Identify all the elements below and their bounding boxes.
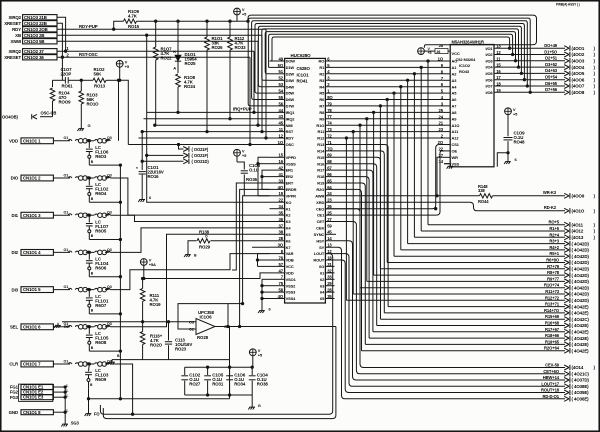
- capacitor filter FL1O3 R6O9: [85, 364, 109, 388]
- svg-text:CEK: CEK: [316, 226, 324, 231]
- svg-text:LOUT+17: LOUT+17: [541, 381, 559, 386]
- arrow OSC-CB: [2, 111, 56, 120]
- junction RC node: [80, 79, 82, 81]
- wire opamp gnd bus: [108, 327, 229, 365]
- capacitor C1O4 RO38: [249, 367, 269, 395]
- svg-text:ROO9: ROO9: [59, 100, 72, 105]
- SRAM pin 17 I/O6: [485, 75, 501, 82]
- svg-text:(4OO5: (4OO5: [572, 71, 585, 76]
- svg-text:(4OO2: (4OO2: [572, 52, 585, 57]
- svg-text:R12: R12: [317, 136, 325, 141]
- wire R7 address row: [325, 105, 444, 269]
- inductor filter row CN1O1 5: [53, 285, 111, 292]
- wire DI2 to K4: [111, 228, 270, 253]
- svg-text:CE1: CE1: [317, 213, 325, 218]
- svg-text:RO28: RO28: [197, 335, 209, 340]
- wire R0 address row: [325, 60, 444, 225]
- svg-text:( 4O36E): ( 4O36E): [572, 397, 590, 402]
- svg-text:( 4O42E): ( 4O42E): [572, 323, 590, 328]
- CPU pin 66 R18: [317, 172, 332, 179]
- svg-text:4.7K: 4.7K: [128, 14, 138, 19]
- capacitor filter FL1O5 R6O8: [86, 327, 109, 351]
- ground R138: [184, 252, 197, 257]
- svg-text:I/O8: I/O8: [485, 90, 493, 95]
- svg-text:R17+67: R17+67: [545, 327, 560, 332]
- wire XRESET to net2: [57, 23, 62, 57]
- wire opamp input row: [62, 321, 196, 323]
- diode D101 1S954 R025: [173, 21, 197, 73]
- svg-text:16: 16: [279, 159, 284, 164]
- svg-text:CET+6O: CET+6O: [543, 369, 560, 374]
- wire R15 row to fan: [325, 157, 380, 319]
- svg-text:53: 53: [279, 82, 284, 87]
- wire IRQ2 row: [144, 118, 270, 120]
- svg-text:CN1O3 2B: CN1O3 2B: [24, 33, 44, 38]
- wire D5W data bus: [255, 24, 526, 94]
- svg-text:VAR: VAR: [286, 251, 294, 256]
- svg-text:(4O11: (4O11: [572, 222, 584, 227]
- capacitor C1O5 RO31: [204, 367, 224, 395]
- svg-text:( 4O42D): ( 4O42D): [572, 254, 590, 259]
- svg-text:VCC: VCC: [286, 264, 294, 269]
- svg-text:RO29: RO29: [199, 244, 211, 249]
- connector CN1O3 22B: [4, 21, 57, 27]
- wire data row D3+52: [494, 62, 596, 70]
- wire +5 routing outer: [248, 15, 537, 48]
- CPU pin 35 65: [320, 294, 332, 301]
- svg-text:RDY-PUP: RDY-PUP: [79, 24, 98, 29]
- svg-text:CN1O1 8: CN1O1 8: [23, 410, 41, 415]
- wire R16 row to fan: [325, 164, 376, 326]
- svg-text:R8+78: R8+78: [547, 270, 560, 275]
- CPU pin 55 D6W: [270, 95, 295, 102]
- svg-text:CS1: CS1: [452, 142, 460, 147]
- CPU pin 58 VSS3: [270, 288, 297, 295]
- CPU pin 59 CEK: [316, 223, 332, 230]
- CPU pin 69 R15: [317, 153, 332, 160]
- wire data row DO+49: [494, 43, 596, 51]
- svg-text:R6O9: R6O9: [95, 377, 107, 382]
- svg-text:( 4O42D): ( 4O42D): [572, 241, 590, 246]
- connector CN1O2 37: [8, 49, 57, 55]
- CPU pin 27 CET: [317, 217, 333, 224]
- svg-text:75: 75: [279, 281, 284, 286]
- svg-text:+5A: +5A: [149, 262, 156, 267]
- SRAM pin 13 I/O1: [485, 44, 501, 51]
- CPU pin 13 SY: [319, 243, 332, 250]
- CPU pin 14 HSY: [316, 236, 332, 243]
- svg-text:R4+2: R4+2: [549, 245, 559, 250]
- svg-text:35: 35: [279, 211, 284, 216]
- wire R20 row to fan: [325, 189, 361, 350]
- wire RD-D-O1 to arrow: [325, 247, 589, 401]
- CPU pin 33 ERT: [270, 178, 294, 185]
- svg-text:ER1: ER1: [286, 168, 294, 173]
- SRAM pin 3 A7: [441, 101, 457, 108]
- connector CN101 8 GND: [9, 410, 54, 415]
- svg-text:L: L: [67, 383, 69, 387]
- wire R5 address row: [325, 92, 444, 256]
- wire fan row R11+73: [353, 289, 589, 297]
- svg-text:4O: 4O: [278, 185, 284, 190]
- svg-text:VDB: VDB: [286, 258, 294, 263]
- svg-text:RO1O: RO1O: [87, 101, 100, 106]
- wire CPU VAR VDB VCC bus: [256, 254, 269, 267]
- CPU pin 28 K6: [270, 236, 292, 243]
- svg-text:37: 37: [279, 223, 284, 228]
- wire filter FL1O5 to bus: [89, 350, 121, 352]
- svg-text:R15: R15: [317, 155, 325, 160]
- connector group FG outline: [19, 384, 53, 401]
- CPU pin 44 IRQ1: [270, 108, 296, 115]
- svg-text:C628O: C628O: [297, 66, 311, 71]
- CPU pin 74 R1O: [316, 121, 332, 128]
- CPU box HUC6280 IC101: [285, 53, 326, 303]
- svg-text:R19: R19: [317, 181, 325, 186]
- inductor filter row CN1O1 3: [53, 211, 111, 218]
- CPU pin 64 R2O: [316, 185, 332, 192]
- capacitor filter FL1O7 R6O5: [86, 215, 109, 239]
- CPU pin 16 VSSS: [270, 159, 297, 166]
- capacitor C1O6 RO34: [226, 367, 246, 395]
- arrow (0021D) c: [141, 159, 209, 165]
- wire CLR bottom route: [111, 364, 134, 415]
- capacitor C107 220P R061: [53, 57, 82, 88]
- svg-text:AWR: AWR: [315, 193, 324, 198]
- wire filter FL1O1 to bus: [89, 313, 121, 315]
- CPU pin 51 D2W: [270, 69, 295, 76]
- svg-text:36: 36: [279, 217, 284, 222]
- power +5 mid-left: [116, 60, 130, 82]
- svg-text:D6W: D6W: [286, 97, 295, 102]
- wire net1 CN102-37: [57, 46, 254, 112]
- SRAM pin 22 OE: [439, 146, 458, 153]
- svg-text:R6O3: R6O3: [95, 154, 107, 159]
- wire D0W data bus: [270, 37, 511, 61]
- SRAM pin 23 A11: [439, 127, 460, 134]
- wire DI3 route: [111, 254, 270, 290]
- capacitor C1O2 RO27: [181, 367, 201, 395]
- wire SYNC stub: [325, 233, 336, 235]
- SRAM pin 15 I/O4: [485, 63, 501, 70]
- wire data row D1+5O: [494, 49, 596, 57]
- svg-text:RD-D-O1: RD-D-O1: [542, 394, 559, 399]
- svg-text:D4W: D4W: [286, 84, 295, 89]
- svg-text:RO2O: RO2O: [150, 342, 163, 347]
- connector CN1O1 3: [12, 212, 54, 218]
- svg-text:IRQ+PUP: IRQ+PUP: [233, 107, 252, 112]
- ground CPU: [258, 306, 271, 313]
- svg-text:( 4O42D): ( 4O42D): [572, 285, 590, 290]
- svg-text:338: 338: [478, 188, 485, 193]
- svg-text:14: 14: [439, 159, 444, 164]
- svg-text:CN1O1 5: CN1O1 5: [23, 287, 41, 292]
- ground opamp input left: [54, 323, 68, 329]
- svg-text:O3: O3: [107, 248, 112, 252]
- CPU pin 5O D1W: [270, 63, 295, 70]
- svg-text:ERT: ERT: [286, 181, 294, 186]
- wire caps top bus: [185, 366, 254, 368]
- svg-text:*: *: [136, 166, 138, 171]
- svg-text:IC1O2: IC1O2: [459, 63, 471, 68]
- svg-text:R6+8O: R6+8O: [546, 258, 560, 263]
- connector CN1O1 4: [12, 250, 54, 256]
- svg-text:O.1U: O.1U: [249, 167, 259, 172]
- svg-text:45: 45: [279, 121, 284, 126]
- wire R9 address row: [325, 118, 444, 282]
- svg-text:(4OO7: (4OO7: [572, 84, 585, 89]
- svg-text:VCC: VCC: [452, 51, 460, 56]
- SRAM pin 27 WR: [439, 153, 459, 160]
- svg-text:G: G: [88, 123, 91, 128]
- wire fan row R8+78: [374, 270, 590, 278]
- CPU pin 42 ER1: [270, 166, 294, 173]
- svg-text:O3: O3: [189, 320, 195, 325]
- wire data row D4+53: [494, 68, 596, 76]
- svg-text:22: 22: [279, 198, 284, 203]
- svg-text:R2+4: R2+4: [549, 232, 559, 237]
- svg-text:D2W: D2W: [286, 71, 295, 76]
- wire R10 address row: [325, 124, 444, 288]
- capacitor filter FL1O2 R6O4: [86, 178, 109, 202]
- power +5 C103: [234, 149, 248, 163]
- svg-text:GND: GND: [9, 410, 18, 415]
- svg-text:RO+5: RO+5: [548, 220, 559, 225]
- svg-text:VDD: VDD: [286, 271, 294, 276]
- svg-text:FG3: FG3: [10, 395, 19, 400]
- svg-text:41: 41: [279, 172, 284, 177]
- resistor R103 56K R010: [79, 80, 99, 126]
- CPU pin 22 KO: [270, 198, 292, 205]
- SRAM pin 5 A5: [441, 89, 457, 96]
- svg-text:RDY: RDY: [12, 27, 21, 32]
- SRAM pin 16 I/O5: [485, 69, 501, 76]
- wire R3 address row: [325, 79, 444, 243]
- inductor filter row CN1O1 4: [53, 248, 111, 255]
- capacitor filter FL1O6 R6O3: [86, 141, 109, 165]
- svg-text:6O: 6O: [319, 264, 324, 269]
- svg-text:CN1O1 7: CN1O1 7: [23, 362, 41, 367]
- svg-text:A: A: [173, 65, 176, 70]
- wire D2W data bus: [265, 32, 516, 74]
- svg-text:IC1O1: IC1O1: [297, 72, 310, 77]
- SRAM pin 9 A1: [441, 63, 457, 70]
- SRAM pin 4 A6: [441, 95, 457, 102]
- svg-text:DI1: DI1: [12, 213, 19, 218]
- wire CE0 to SRAM CS1: [325, 145, 444, 210]
- svg-text:IRQ2: IRQ2: [286, 116, 296, 121]
- CPU pin 72 R12: [317, 133, 332, 140]
- resistor R111 4.7K R019: [140, 277, 161, 323]
- CPU pin 79 R7: [319, 101, 332, 108]
- svg-text:WR-K3: WR-K3: [543, 190, 557, 195]
- svg-text:R9+77: R9+77: [547, 276, 560, 281]
- wire ground return L1: [89, 360, 230, 399]
- svg-text:( 4O42D): ( 4O42D): [572, 279, 590, 284]
- resistor R112 4.7K R033: [228, 21, 246, 120]
- CPU pin 6 RO: [318, 56, 330, 63]
- wire VDD riser: [117, 79, 119, 141]
- wire D4W data bus: [258, 26, 522, 86]
- svg-text:R6: R6: [64, 325, 68, 329]
- wire ROUT+18 to arrow: [325, 260, 589, 395]
- svg-text:R16+68: R16+68: [545, 321, 560, 326]
- wire D6W data bus: [252, 21, 529, 100]
- svg-text:VDD: VDD: [9, 139, 18, 144]
- wire LOUT+17 to arrow: [325, 254, 589, 389]
- svg-text:CN1O1 3: CN1O1 3: [23, 213, 41, 218]
- resistor R107 4.7K R022: [153, 21, 172, 125]
- svg-text:SEL: SEL: [10, 325, 19, 330]
- CPU pin 75 VSS2: [270, 281, 297, 288]
- SRAM pin 26 VCC: [418, 43, 460, 56]
- wire DI0 to K2: [111, 178, 270, 215]
- CPU pin 12 LOUT: [314, 249, 333, 256]
- svg-text:( 4O42E): ( 4O42E): [572, 311, 590, 316]
- ground F0: [85, 399, 101, 417]
- wire +5 rail: [155, 20, 237, 22]
- svg-text:( 4O21C): ( 4O21C): [572, 372, 590, 377]
- svg-text:CN1O3 5B: CN1O3 5B: [24, 39, 44, 44]
- svg-text:G: G: [258, 403, 261, 408]
- svg-text:R7+79: R7+79: [547, 264, 560, 269]
- svg-text:O3: O3: [107, 136, 112, 140]
- wire ERDR route down: [238, 189, 269, 327]
- svg-text:HBW+14: HBW+14: [543, 375, 560, 380]
- wire fan row R18+66: [369, 333, 589, 341]
- svg-text:OSC: OSC: [286, 142, 294, 147]
- wire to R104: [52, 80, 54, 87]
- wire K7 stub: [252, 246, 270, 248]
- svg-text:O1: O1: [64, 211, 69, 215]
- svg-text:OSC-CB: OSC-CB: [41, 111, 57, 116]
- svg-text:R6O5: R6O5: [95, 228, 107, 233]
- CPU pin 54 D5W: [270, 89, 295, 96]
- svg-text:D2+51: D2+51: [545, 56, 558, 61]
- svg-text:RO25: RO25: [185, 61, 197, 66]
- CPU pin 38 K5: [270, 230, 292, 237]
- svg-text:76: 76: [279, 255, 284, 260]
- resistor R138 R029: [188, 230, 270, 252]
- svg-text:O1: O1: [64, 173, 69, 177]
- CPU pin 25 CE1: [317, 211, 333, 218]
- wire opamp output: [228, 326, 336, 328]
- wire data row D7+56: [494, 87, 596, 95]
- connector CN1O1 E3: [10, 395, 54, 400]
- wire R2 address row: [325, 73, 444, 238]
- wire fan row R5+1: [394, 251, 589, 259]
- svg-text:( 4O37D): ( 4O37D): [572, 378, 590, 383]
- connector CN1O3 2OB: [12, 27, 57, 32]
- svg-text:CN1O1 6: CN1O1 6: [23, 324, 41, 329]
- svg-text:PWB(A) ASSY ( ): PWB(A) ASSY ( ): [556, 3, 580, 7]
- capacitor C101 22U/16V R016: [136, 132, 164, 197]
- connector CN1O1 E1: [10, 385, 54, 390]
- svg-text:19: 19: [279, 191, 284, 196]
- svg-text:O3: O3: [107, 322, 112, 326]
- svg-text:CN1O3 22B: CN1O3 22B: [24, 21, 47, 26]
- svg-text:O3: O3: [107, 173, 112, 177]
- wire fan row RO+5: [428, 220, 596, 228]
- svg-text:RO: RO: [318, 59, 324, 64]
- SRAM pin 18 I/O7: [485, 82, 501, 89]
- svg-text:38: 38: [279, 230, 284, 235]
- wire R4 address row: [325, 86, 444, 250]
- power +5 C109: [505, 107, 519, 136]
- CPU pin 67 R17: [317, 166, 332, 173]
- svg-text:D7W: D7W: [286, 104, 295, 109]
- inductor filter row CN1O1 7: [53, 359, 111, 366]
- wire OSC row: [128, 144, 269, 146]
- svg-text:RO38: RO38: [257, 382, 269, 387]
- capacitor C103 0.1U R036: [237, 162, 261, 196]
- svg-text:VSSS: VSSS: [286, 161, 297, 166]
- CPU pin 7O R14: [317, 146, 333, 153]
- resistor R102 56K R013: [81, 67, 119, 88]
- svg-text:RO19: RO19: [150, 302, 162, 307]
- wire rail extension: [237, 20, 249, 22]
- svg-text:DIO: DIO: [11, 176, 19, 181]
- CPU pin 23 XRD: [316, 198, 332, 205]
- CPU pin 73 R11: [317, 127, 332, 134]
- CPU pin 65 R19: [317, 178, 332, 185]
- connector CN1O1 5: [12, 287, 54, 293]
- svg-text:R14+7O: R14+7O: [544, 308, 560, 313]
- svg-text:IRQ1: IRQ1: [286, 110, 296, 115]
- svg-text:D6+55: D6+55: [545, 81, 558, 86]
- wire C109 feed: [497, 153, 508, 167]
- svg-text:CN1O2 36: CN1O2 36: [24, 55, 44, 60]
- connector CN1O3 5B: [11, 39, 57, 45]
- arrow (0021F) a: [177, 143, 209, 151]
- SRAM pin 11 I/O3: [485, 56, 501, 63]
- wire CE1 to SRAM OE: [325, 151, 444, 215]
- wire AWR to SRAM WR: [437, 157, 444, 196]
- wire R11 address row: [325, 130, 444, 294]
- svg-text:R16: R16: [317, 161, 325, 166]
- svg-text:RO48: RO48: [514, 140, 526, 145]
- svg-text:KO: KO: [286, 200, 292, 205]
- CPU pin 15 VPPD: [270, 153, 297, 160]
- svg-text:A1O: A1O: [452, 123, 460, 128]
- wire R14 row to fan: [325, 151, 384, 313]
- svg-text:( 4O38E): ( 4O38E): [572, 384, 590, 389]
- svg-text:(4OO3: (4OO3: [572, 59, 585, 64]
- resistor R148 33R R044 WR-K3: [325, 184, 595, 204]
- svg-text:RO22: RO22: [161, 55, 173, 60]
- wire R1 address row: [325, 66, 444, 231]
- svg-text:D4+53: D4+53: [545, 68, 558, 73]
- svg-text:VSS: VSS: [452, 161, 460, 166]
- CPU pin 3O K7: [270, 243, 292, 250]
- svg-text:CN1O3 2OB: CN1O3 2OB: [24, 27, 48, 32]
- svg-text:56K: 56K: [94, 72, 103, 77]
- svg-text:( 4O42D): ( 4O42D): [572, 267, 590, 272]
- wire XB down to K0: [147, 35, 270, 202]
- CPU pin 4O ERDR: [270, 185, 297, 192]
- SRAM pin 2 A12: [441, 134, 460, 141]
- svg-text:RO31: RO31: [212, 382, 224, 387]
- svg-text:DOW: DOW: [286, 59, 296, 64]
- CPU pin 28 64: [320, 288, 332, 295]
- connector CN1O3 2B: [15, 33, 57, 39]
- svg-text:XNMI: XNMI: [11, 39, 21, 44]
- svg-text:O1: O1: [64, 248, 69, 252]
- ground caps: [248, 395, 260, 410]
- wire fan row R9+77: [367, 276, 590, 284]
- SRAM pin 12 I/O2: [485, 50, 501, 57]
- ground SRAM VSS: [444, 164, 453, 169]
